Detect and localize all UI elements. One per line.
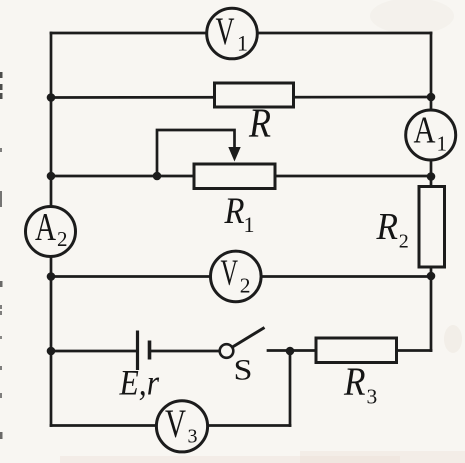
junction wiper tap	[153, 172, 162, 181]
junction left V2 row	[47, 272, 56, 281]
wire left vertical bus	[50, 33, 53, 426]
svg-text:E,r: E,r	[119, 363, 160, 403]
wiper arrow of rheostat R1	[157, 130, 241, 176]
svg-text:2: 2	[240, 274, 251, 298]
svg-text:1: 1	[437, 132, 448, 156]
svg-text:S: S	[234, 354, 253, 387]
voltmeter V2	[211, 251, 262, 302]
junction right V2 row / R2 bottom	[427, 272, 436, 281]
svg-text:R: R	[376, 206, 398, 248]
resistor R	[215, 83, 294, 107]
label R2	[376, 206, 409, 253]
svg-text:R: R	[343, 359, 365, 404]
wire bottom row V3	[51, 424, 290, 427]
junction S contact / bottom branch	[286, 347, 295, 356]
junction left R1 row	[47, 172, 56, 181]
battery E,r	[138, 331, 150, 371]
svg-text:3: 3	[188, 426, 198, 448]
svg-text:2: 2	[399, 231, 409, 253]
svg-text:1: 1	[237, 31, 248, 56]
wire V2 row	[51, 275, 431, 278]
ammeter A1	[406, 110, 456, 161]
svg-text:R: R	[248, 100, 271, 146]
svg-text:V: V	[221, 253, 239, 294]
svg-text:A: A	[414, 110, 436, 152]
svg-text:1: 1	[244, 212, 255, 237]
svg-text:2: 2	[57, 227, 68, 251]
junction left R row	[47, 93, 56, 102]
svg-text:V: V	[165, 401, 186, 446]
wire battery to switch	[151, 350, 220, 353]
wire R1 row	[51, 175, 431, 178]
ammeter A2	[26, 206, 76, 257]
junction right R row	[427, 93, 436, 102]
voltmeter V3	[156, 401, 207, 452]
wire top row V1	[51, 32, 431, 35]
wire R row	[51, 96, 431, 99]
resistor R2	[419, 187, 445, 268]
resistor R3	[316, 338, 397, 363]
svg-text:3: 3	[367, 385, 378, 409]
label R1	[224, 191, 255, 237]
voltmeter V1	[207, 8, 258, 59]
label R3	[343, 359, 377, 409]
junction left battery row	[47, 347, 56, 356]
wire battery row left	[51, 350, 136, 353]
wire S junction down to bottom row	[289, 351, 292, 426]
svg-text:V: V	[216, 10, 235, 53]
wire right vertical bus	[430, 33, 433, 351]
svg-text:R: R	[224, 191, 245, 232]
junction right R1 row / R2 top	[427, 172, 436, 181]
switch S	[220, 328, 265, 358]
svg-text:A: A	[35, 206, 56, 249]
rheostat R1	[194, 164, 275, 189]
wire switch to R3 to right bus	[268, 349, 431, 352]
